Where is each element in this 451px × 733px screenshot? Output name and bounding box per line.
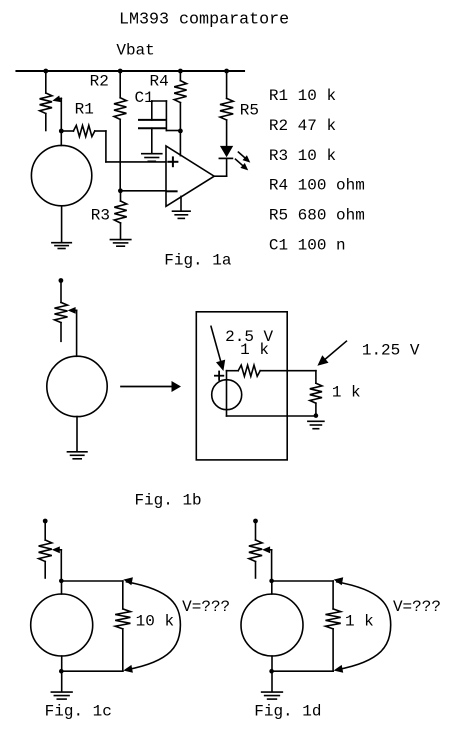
svg-text:Fig. 1d: Fig. 1d	[254, 703, 321, 721]
svg-text:R4: R4	[150, 73, 169, 91]
svg-text:R1 10 k: R1 10 k	[269, 87, 336, 105]
svg-text:C1 100 n: C1 100 n	[269, 237, 346, 255]
svg-text:Vbat: Vbat	[116, 42, 154, 60]
svg-text:10 k: 10 k	[136, 612, 174, 630]
svg-text:R3: R3	[91, 207, 110, 225]
svg-text:1.25 V: 1.25 V	[362, 342, 420, 360]
svg-text:Fig. 1c: Fig. 1c	[45, 703, 112, 721]
svg-text:Fig. 1a: Fig. 1a	[164, 251, 232, 269]
svg-text:V=???: V=???	[393, 598, 441, 616]
svg-text:R1: R1	[75, 100, 94, 118]
svg-text:R5 680 ohm: R5 680 ohm	[269, 207, 365, 225]
svg-text:1 k: 1 k	[240, 341, 269, 359]
svg-text:R4 100 ohm: R4 100 ohm	[269, 177, 365, 195]
svg-text:R2: R2	[90, 73, 109, 91]
svg-text:1 k: 1 k	[345, 612, 374, 630]
svg-text:1 k: 1 k	[332, 384, 361, 402]
svg-text:Fig. 1b: Fig. 1b	[134, 491, 201, 509]
svg-text:R2 47 k: R2 47 k	[269, 117, 336, 135]
svg-text:C1: C1	[135, 89, 154, 107]
svg-text:V=???: V=???	[182, 598, 230, 616]
svg-text:R3 10 k: R3 10 k	[269, 147, 336, 165]
svg-text:LM393 comparatore: LM393 comparatore	[119, 10, 289, 29]
svg-text:R5: R5	[240, 102, 259, 120]
